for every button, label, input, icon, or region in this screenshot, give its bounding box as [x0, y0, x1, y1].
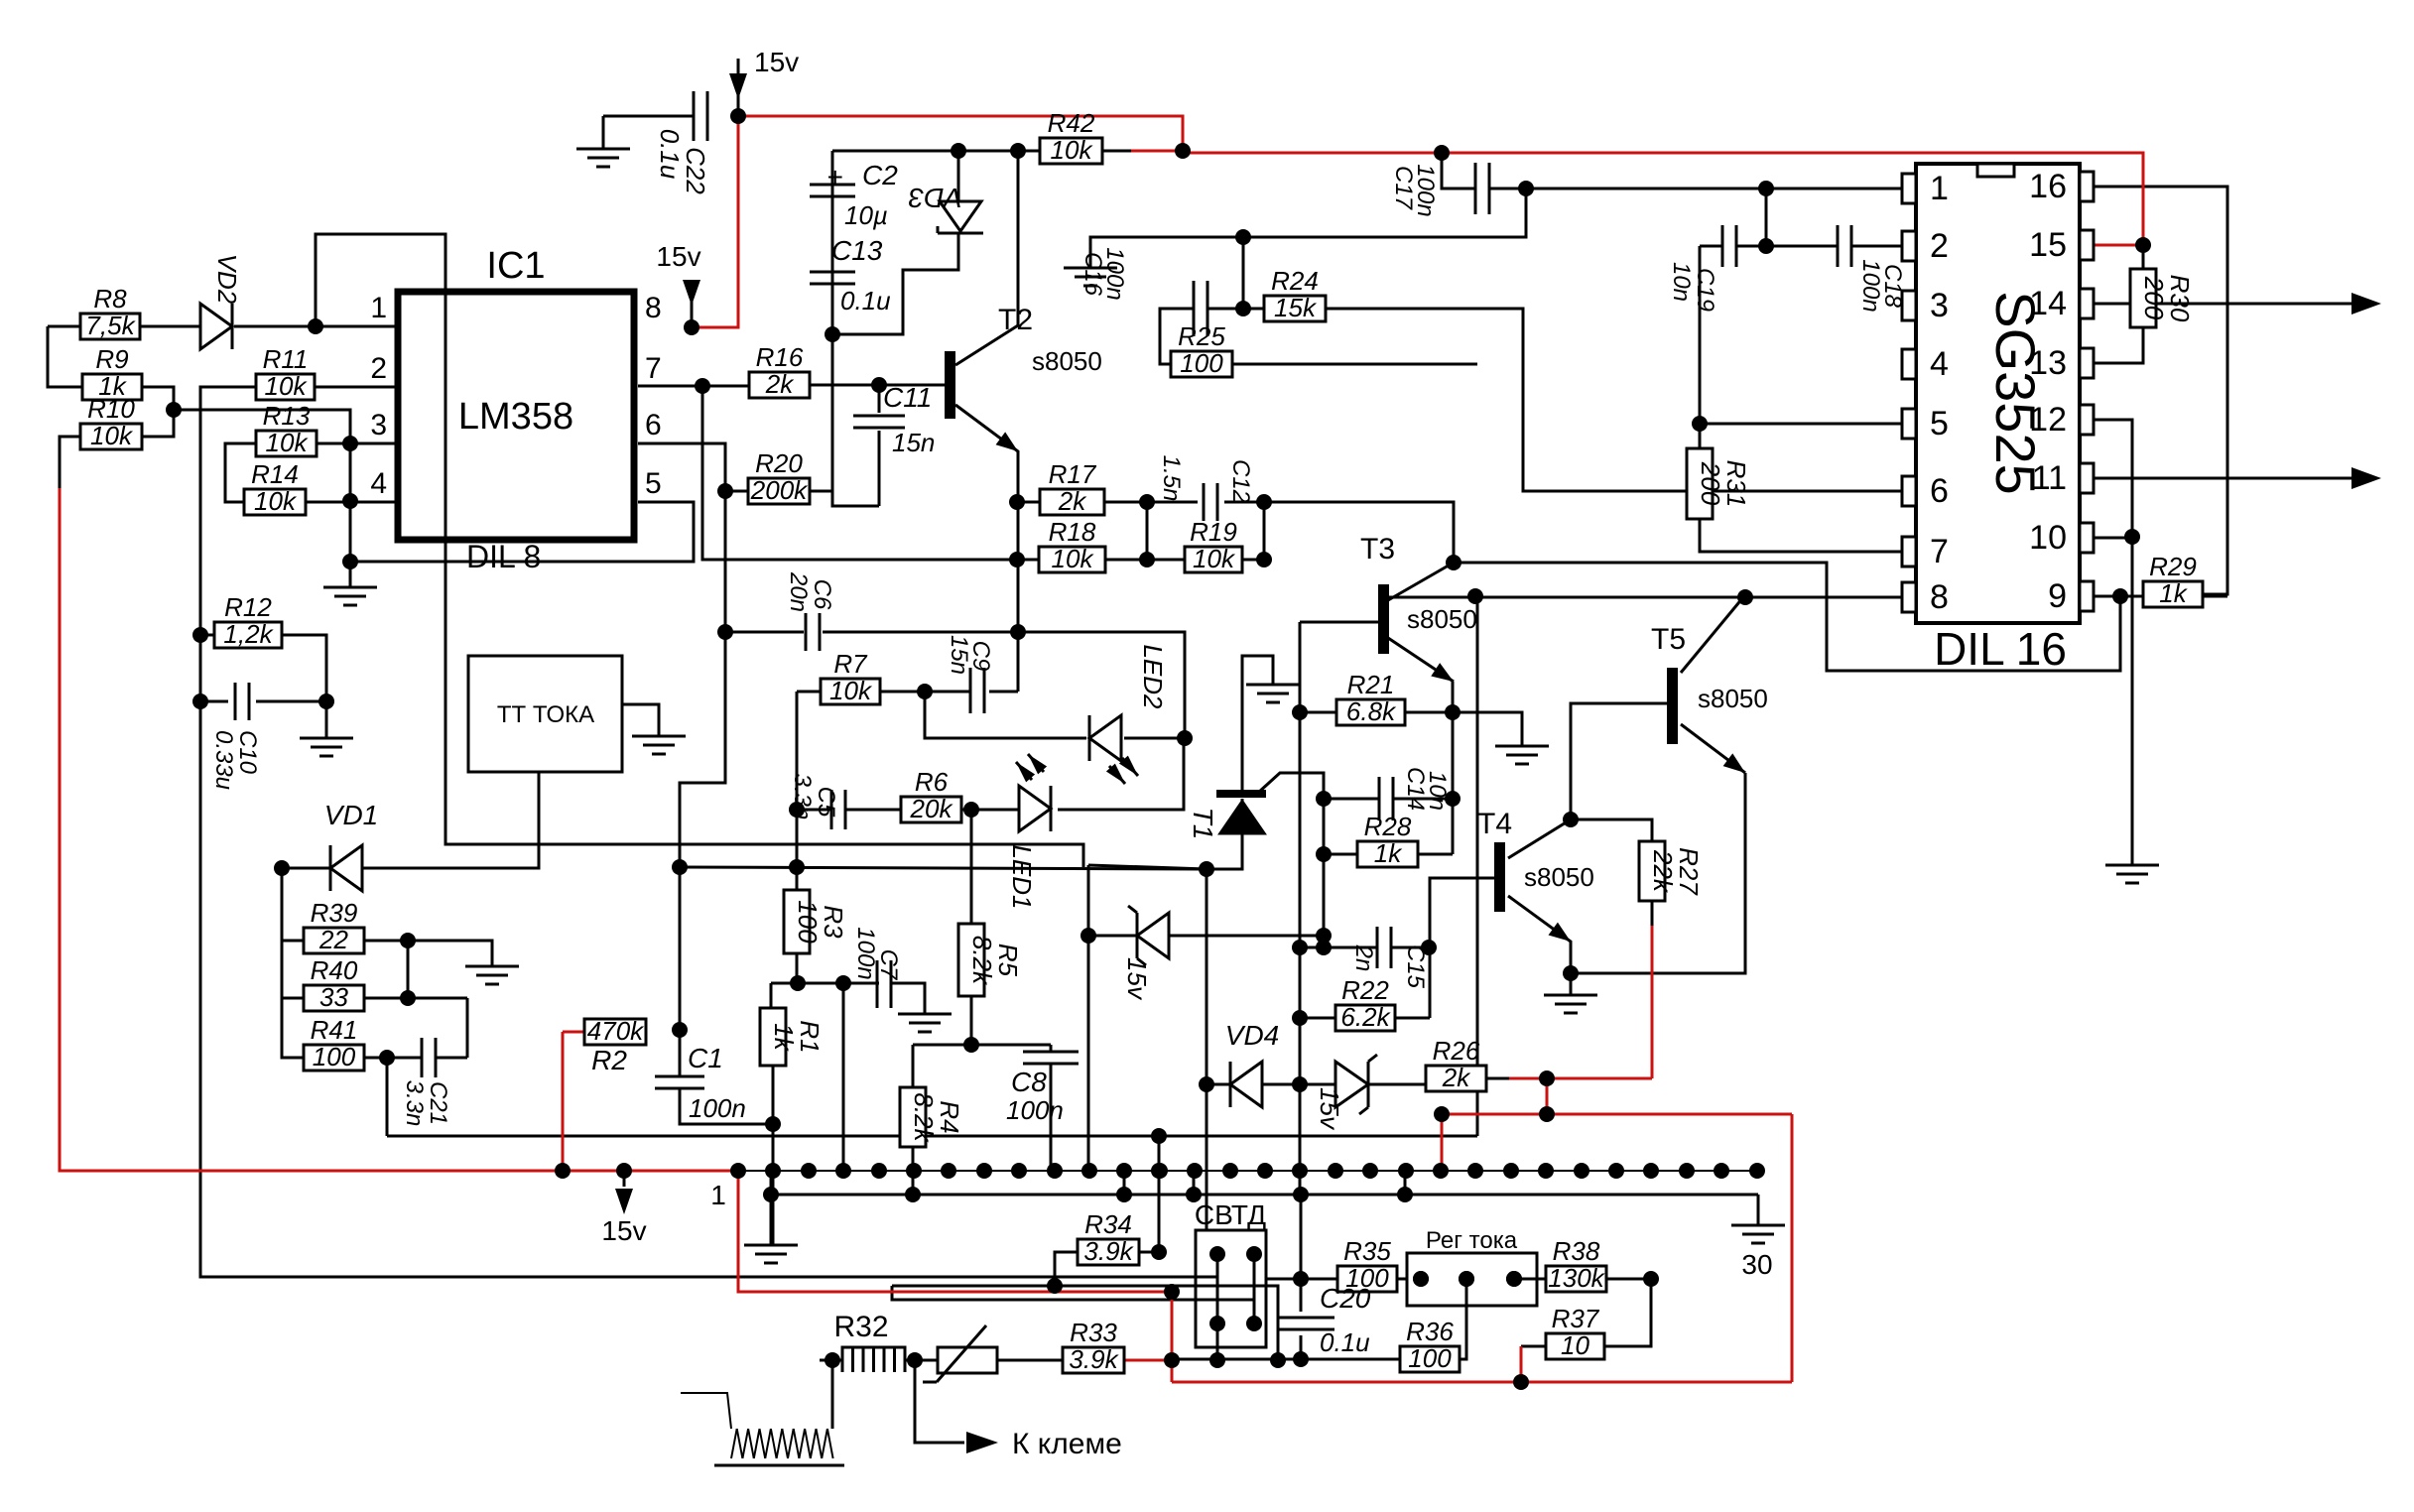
svg-text:100n: 100n — [852, 927, 879, 979]
svg-text:1k: 1k — [1374, 838, 1403, 868]
wire pin4 stub — [306, 501, 398, 504]
resistor R27 22k — [1639, 841, 1704, 901]
svg-text:2k: 2k — [1058, 486, 1087, 516]
svg-text:100n: 100n — [1412, 164, 1439, 216]
wire pin5 to ground row — [350, 502, 694, 587]
wire R29 right — [2203, 595, 2227, 598]
wire R25 to pin8 net — [1232, 363, 1477, 366]
resistor R33 3.9k — [1063, 1318, 1124, 1374]
wire row to bus x850 — [842, 983, 845, 1171]
svg-text:DIL 8: DIL 8 — [466, 539, 541, 574]
svg-text:0.33u: 0.33u — [210, 730, 237, 790]
svg-text:10k: 10k — [265, 371, 309, 401]
svg-text:100n: 100n — [1101, 247, 1128, 300]
svg-text:R13: R13 — [263, 401, 311, 431]
svg-text:LED2: LED2 — [1138, 644, 1168, 709]
IC1 pin number 1 — [370, 292, 387, 324]
capacitor C21 3.3n — [401, 1038, 451, 1126]
wire pin12-pin10 column — [2094, 420, 2132, 865]
svg-text:R2: R2 — [591, 1045, 627, 1075]
svg-text:10k: 10k — [90, 421, 134, 450]
wire R32 left link — [820, 1359, 842, 1362]
SG3525 pin number 16 — [2029, 168, 2067, 205]
svg-text:R32: R32 — [833, 1311, 888, 1343]
capacitor C2 10u polarized — [810, 160, 898, 230]
svg-text:0.1u: 0.1u — [840, 286, 891, 315]
wire pin10 stub — [2094, 537, 2132, 540]
wire C2/C13 column — [832, 151, 879, 506]
wire T1 anode column — [1206, 869, 1208, 1230]
SG3525 pin number 10 — [2029, 519, 2067, 557]
svg-text:ТТ ТОКА: ТТ ТОКА — [497, 701, 594, 728]
svg-text:R8: R8 — [93, 284, 127, 314]
resistor R17 2k — [1040, 459, 1104, 516]
wire R26 right stub — [1486, 1077, 1509, 1080]
resistor R42 10k — [1040, 108, 1102, 165]
wire LED2 right to junction — [1124, 737, 1185, 740]
wire TT TOKA gnd hook — [622, 704, 659, 736]
wire R22 row — [1300, 1017, 1430, 1020]
red R33 stub — [1124, 1359, 1172, 1362]
svg-text:10n: 10n — [1668, 262, 1695, 302]
red bottom rail — [1172, 1381, 1792, 1384]
resistor R41 100 — [304, 1015, 364, 1071]
wire C21 row — [387, 998, 467, 1058]
resistor R37 10 — [1546, 1304, 1604, 1360]
wire R11 left column to bottom feedback line — [200, 387, 1217, 1277]
svg-text:C10: C10 — [234, 730, 261, 775]
wire C6 row — [725, 631, 1018, 634]
wire R40 right — [364, 941, 467, 998]
wire T3 base column — [1299, 622, 1302, 1195]
wire T3 emitter column — [1452, 682, 1455, 854]
svg-text:1.5n: 1.5n — [1158, 455, 1185, 502]
wire T3 collector — [1388, 563, 1454, 600]
capacitor C6 20n — [785, 571, 835, 651]
diode VD2 — [200, 254, 242, 349]
svg-text:3: 3 — [370, 409, 387, 441]
red mid rail — [1442, 1113, 1792, 1116]
red R42 link — [1131, 150, 1183, 153]
red R26 row — [1509, 1077, 1652, 1080]
wire pin3-pin4-gnd column — [349, 443, 352, 562]
current transformer TT TOKA box — [468, 656, 622, 772]
svg-text:3: 3 — [1930, 287, 1949, 324]
wire R36 row — [1172, 1358, 1400, 1361]
IC1 pin number 4 — [370, 467, 387, 500]
svg-text:R6: R6 — [915, 767, 949, 797]
ground T3 emitter net — [1495, 746, 1549, 764]
svg-text:DIL 16: DIL 16 — [1934, 623, 2067, 675]
svg-text:VD1: VD1 — [324, 800, 378, 830]
svg-text:R11: R11 — [263, 344, 309, 374]
wire T2emitter-R17-R18-C6-C9 column — [989, 502, 1018, 692]
svg-text:СВТД: СВТД — [1195, 1199, 1266, 1230]
svg-text:8.2k: 8.2k — [967, 936, 997, 986]
ground bus R1 — [744, 1245, 798, 1263]
resistor R34 3.9k — [1078, 1209, 1139, 1266]
wire R4 bottom — [912, 1147, 915, 1195]
svg-text:R34: R34 — [1084, 1209, 1132, 1239]
wire R37 left — [1521, 1345, 1546, 1348]
ground C10 net — [300, 738, 353, 756]
svg-text:10k: 10k — [1193, 544, 1236, 573]
wire R19 right hook — [1242, 559, 1264, 562]
svg-text:10: 10 — [1561, 1330, 1589, 1360]
svg-text:Рег тока: Рег тока — [1426, 1227, 1518, 1254]
capacitor C14 10n — [1379, 767, 1451, 820]
wire pin2 stub — [315, 386, 398, 389]
wire pin7 net to R16/R18 — [638, 386, 1039, 560]
ground bus right 30 — [1731, 1225, 1785, 1243]
svg-text:R39: R39 — [311, 898, 358, 928]
IC1 pin number 6 — [645, 409, 662, 441]
SG3525 pin number 11 — [2032, 459, 2067, 497]
svg-text:3.9k: 3.9k — [1069, 1344, 1119, 1374]
svg-text:2n: 2n — [1350, 945, 1377, 972]
svg-text:T2: T2 — [998, 304, 1033, 336]
wire C12 verticals — [1147, 502, 1264, 560]
ground T4 emitter net — [1544, 995, 1597, 1013]
wire second bus line — [771, 1194, 1758, 1197]
SG3525 pin number 7 — [1930, 533, 1949, 570]
arrow output pin11 — [2351, 467, 2381, 489]
svg-text:R42: R42 — [1048, 108, 1095, 138]
bus junction dots row — [730, 1163, 1765, 1179]
wire R2 column top — [679, 867, 682, 1030]
resistor R10 10k — [80, 394, 142, 450]
svg-text:R3: R3 — [819, 905, 848, 939]
wire C10 row — [200, 701, 326, 738]
svg-text:R24: R24 — [1271, 266, 1319, 296]
wire R41 right — [364, 1057, 387, 1060]
wire T1 cathode to ground hook — [1242, 656, 1273, 791]
svg-text:R27: R27 — [1674, 847, 1704, 896]
capacitor C8 100n — [1006, 1052, 1079, 1125]
wire feedback row y1145 — [387, 1135, 1477, 1138]
wire C14 row — [1324, 798, 1453, 801]
resistor R8 7,5k — [80, 284, 140, 340]
svg-text:T1: T1 — [1188, 808, 1218, 840]
wire bus stubs — [771, 1171, 1405, 1245]
wire C6 to LED2 hook — [1018, 632, 1185, 738]
resistor R40 33 — [304, 955, 364, 1012]
svg-text:100: 100 — [1408, 1343, 1452, 1373]
SG3525 pin number 3 — [1930, 287, 1949, 324]
svg-text:s8050: s8050 — [1698, 684, 1768, 713]
SG3525 pin number 8 — [1930, 578, 1949, 616]
wire second line gnd drop — [1757, 1195, 1760, 1225]
wire pin9 stub — [2094, 595, 2143, 598]
wire zener15v-1 row — [1088, 935, 1324, 938]
svg-text:7: 7 — [1930, 533, 1949, 570]
resistor R5 8.2k — [958, 924, 1023, 996]
ground R39 net — [465, 966, 519, 984]
svg-text:R40: R40 — [311, 955, 358, 985]
resistor R26 2k — [1426, 1036, 1486, 1092]
svg-text:3.3n: 3.3n — [401, 1080, 428, 1127]
wire C8 stems — [1050, 1045, 1053, 1171]
svg-text:30: 30 — [1741, 1249, 1772, 1280]
supply arrow 15v pin8 — [656, 241, 700, 327]
svg-text:100: 100 — [793, 900, 823, 944]
svg-text:R9: R9 — [95, 344, 128, 374]
svg-text:1k: 1k — [769, 1023, 799, 1052]
IC1 part name LM358 — [458, 396, 573, 438]
svg-text:7: 7 — [645, 352, 662, 385]
red R27 bottom — [1651, 926, 1654, 1078]
svg-text:2k: 2k — [1442, 1063, 1471, 1092]
SG3525 pin number 6 — [1930, 472, 1949, 510]
wire R5 bottom junction row — [913, 996, 1051, 1045]
svg-text:R5: R5 — [993, 944, 1023, 977]
waveform sawtooth icon — [681, 1393, 844, 1465]
svg-text:4: 4 — [370, 467, 387, 500]
svg-text:15v: 15v — [754, 47, 799, 77]
wire R27 bottom stub — [1651, 901, 1654, 926]
wire R5 top — [963, 802, 979, 924]
resistor R36 100 — [1400, 1317, 1460, 1373]
wire pin15 stub red — [2094, 244, 2143, 247]
resistor R21 6.8k — [1336, 670, 1405, 726]
svg-text:К клеме: К клеме — [1012, 1428, 1122, 1460]
capacitor C13 0.1u — [810, 235, 891, 315]
wire C5 row — [797, 809, 901, 812]
svg-text:R28: R28 — [1364, 812, 1412, 841]
svg-text:22: 22 — [318, 925, 348, 954]
wire R30 stems — [2094, 245, 2143, 363]
svg-text:10k: 10k — [266, 428, 310, 457]
svg-text:T5: T5 — [1651, 623, 1686, 656]
svg-text:7,5k: 7,5k — [85, 311, 136, 340]
wire C12 to T3 collector — [1264, 502, 1454, 563]
svg-text:15v: 15v — [601, 1215, 646, 1246]
red supply wire top to SG3525 pin15 — [738, 116, 2143, 245]
wire T4 collector to R27 hook — [1571, 819, 1652, 841]
svg-text:T4: T4 — [1477, 808, 1512, 840]
svg-text:C7: C7 — [875, 949, 902, 981]
resistor R24 15k — [1264, 266, 1326, 322]
svg-text:LM358: LM358 — [458, 396, 573, 438]
svg-text:22k: 22k — [1648, 849, 1678, 894]
svg-text:12: 12 — [2029, 401, 2067, 439]
svg-text:1: 1 — [370, 292, 387, 324]
SG3525 pin number 5 — [1930, 405, 1949, 442]
svg-text:VD2: VD2 — [212, 254, 242, 305]
SG3525 pin number 4 — [1930, 345, 1949, 383]
SG3525 package DIL 16 — [1934, 623, 2067, 675]
svg-text:C19: C19 — [1692, 268, 1718, 312]
capacitor C20 0.1u — [1277, 1283, 1371, 1357]
capacitor C12 1.5n — [1158, 455, 1254, 521]
wire LED1 to LED2 column — [1058, 738, 1184, 810]
wire C14-R28 column — [1323, 799, 1326, 947]
svg-text:4: 4 — [1930, 345, 1949, 383]
IC1 pin number 7 — [645, 352, 662, 385]
capacitor C9 15n — [946, 635, 994, 713]
wire T3 emitter diag — [1388, 638, 1454, 682]
svg-text:10k: 10k — [1052, 544, 1095, 573]
svg-text:s8050: s8050 — [1032, 346, 1102, 376]
supply arrow 15v top — [729, 47, 799, 116]
resistor R39 22 — [304, 898, 364, 954]
wire R18-R19 link — [1105, 559, 1185, 562]
resistor R6 20k — [901, 767, 961, 823]
svg-text:R14: R14 — [251, 459, 299, 489]
svg-text:33: 33 — [319, 982, 348, 1012]
svg-text:C2: C2 — [862, 160, 898, 190]
transistor T2 s8050 — [945, 304, 1102, 451]
svg-text:R35: R35 — [1343, 1236, 1391, 1266]
IC1 pin number 2 — [370, 352, 387, 385]
wire pin8 long row — [1379, 596, 1903, 599]
svg-text:C6: C6 — [809, 579, 835, 610]
capacitor C19 10n — [1668, 225, 1736, 312]
wire bus line — [738, 1170, 1756, 1172]
svg-text:15k: 15k — [1274, 293, 1318, 322]
wire C17 left hook — [1442, 153, 1476, 189]
svg-text:2: 2 — [1930, 227, 1949, 265]
wire C1 stems — [680, 1030, 773, 1124]
SG3525 pin number 14 — [2029, 285, 2067, 322]
svg-text:8: 8 — [645, 292, 662, 324]
capacitor C11 15n — [853, 382, 935, 457]
svg-text:10k: 10k — [1051, 135, 1094, 165]
svg-text:10: 10 — [2029, 519, 2067, 557]
svg-text:200: 200 — [2139, 276, 2169, 320]
SG3525 pin number 1 — [1930, 170, 1949, 207]
svg-text:14: 14 — [2029, 285, 2067, 322]
resistor R28 1k — [1357, 812, 1418, 868]
svg-text:R38: R38 — [1553, 1236, 1600, 1266]
wire R10 left down (to red feed) — [60, 437, 80, 488]
transistor T3 s8050 — [1360, 533, 1477, 682]
wire svtd mid row — [1055, 1286, 1278, 1360]
red bus to R33 loop — [738, 1171, 1172, 1382]
wire R35 row — [1266, 1278, 1407, 1281]
svg-text:13: 13 — [2029, 344, 2067, 382]
wire R28 right hook — [1418, 853, 1453, 856]
wire T5 collector — [1681, 597, 1743, 673]
svg-text:5: 5 — [645, 467, 662, 500]
svg-text:8: 8 — [1930, 578, 1949, 616]
wire K kleme drop — [915, 1360, 964, 1443]
svg-text:C20: C20 — [1320, 1283, 1371, 1314]
capacitor C22 0.1u — [655, 91, 710, 194]
red supply to IC1 pin8 — [692, 116, 738, 327]
resistor R14 10k — [244, 459, 306, 516]
svg-text:C11: C11 — [883, 382, 932, 413]
svg-text:0.1u: 0.1u — [655, 129, 685, 180]
wire C20 column — [1300, 1195, 1303, 1359]
svg-text:15n: 15n — [892, 428, 935, 457]
wire C16 row — [1160, 309, 1243, 364]
SG3525 pin number 9 — [2048, 577, 2067, 615]
wire R20 row — [725, 490, 832, 493]
IC1 label — [486, 245, 545, 287]
svg-text:6: 6 — [1930, 472, 1949, 510]
svg-text:IC1: IC1 — [486, 245, 545, 287]
wire R17 row — [1017, 501, 1264, 504]
svg-text:1,2k: 1,2k — [223, 619, 274, 649]
svg-text:C5: C5 — [813, 787, 839, 818]
wire left column x1097 — [1087, 865, 1090, 1171]
resistor R19 10k — [1185, 517, 1242, 573]
wire R34 left hook — [892, 1252, 1078, 1286]
wire R8 row to VD2 to IC1 pin 1 — [48, 325, 398, 328]
svg-text:C13: C13 — [831, 235, 883, 266]
wire pin3 sg stub — [1902, 306, 1905, 309]
svg-text:20k: 20k — [910, 794, 954, 823]
svg-text:10µ: 10µ — [844, 200, 888, 230]
ground TT TOKA — [632, 736, 686, 754]
wire top supply row to R42 — [832, 150, 1131, 153]
svg-text:R1: R1 — [795, 1020, 825, 1053]
wire svtd branch — [892, 1286, 1254, 1300]
svg-text:2k: 2k — [765, 369, 795, 399]
wire R39-41 left bus — [282, 868, 304, 1058]
wire R33 right black — [1124, 1359, 1151, 1362]
ground T1 cathode — [1246, 685, 1300, 702]
node label 30 — [1741, 1249, 1772, 1280]
svg-text:C21: C21 — [425, 1081, 451, 1125]
svg-text:R10: R10 — [87, 394, 135, 424]
arrow output pin14 — [2351, 293, 2381, 315]
wire VD3 step — [832, 151, 958, 334]
svg-text:R26: R26 — [1433, 1036, 1480, 1066]
wire R34 right column — [1136, 1136, 1159, 1252]
connector SVTD box — [1195, 1199, 1266, 1360]
LED LED1 — [1007, 754, 1051, 910]
SG3525 part name — [1984, 291, 2047, 495]
SG3525 pin number 12 — [2029, 401, 2067, 439]
wire pin5 row — [1700, 423, 1903, 426]
wire R28 left stub — [1324, 853, 1357, 856]
zener D5 15v — [1122, 906, 1169, 1001]
wire R36 right to pot — [1460, 1279, 1466, 1359]
wire waveform link — [831, 1360, 834, 1429]
wire T2 collector up — [955, 151, 1018, 365]
supply arrow 15v bus — [601, 1171, 646, 1246]
svg-text:8.2k: 8.2k — [909, 1092, 939, 1143]
svg-text:200k: 200k — [750, 475, 809, 505]
wire R24 row — [1243, 309, 1903, 491]
wire TT TOKA bottom — [538, 771, 541, 774]
wire T2 emitter to R17 bus — [955, 405, 1018, 502]
svg-text:R18: R18 — [1049, 517, 1096, 547]
svg-text:R33: R33 — [1070, 1318, 1117, 1347]
svg-text:C1: C1 — [688, 1043, 723, 1073]
wire T3 base stub — [1300, 621, 1379, 624]
wire row B to T1 — [680, 799, 1242, 869]
resistor R22 6.2k — [1335, 975, 1395, 1032]
wire pin1 row — [1489, 188, 1903, 190]
IC1 pin number 8 — [645, 292, 662, 324]
svg-text:R20: R20 — [755, 448, 803, 478]
svg-text:20n: 20n — [785, 571, 812, 612]
svg-text:130k: 130k — [1548, 1263, 1605, 1293]
resistor R1 1k — [760, 1008, 825, 1066]
IC1 pin number 3 — [370, 409, 387, 441]
svg-text:0.1u: 0.1u — [1320, 1327, 1370, 1357]
SG3525 pin number 2 — [1930, 227, 1949, 265]
svg-text:6: 6 — [645, 409, 662, 441]
inductive pickup R32 — [832, 1311, 915, 1372]
wire VD1 row — [282, 772, 539, 868]
wire R38 left — [1514, 1278, 1546, 1281]
svg-text:16: 16 — [2029, 168, 2067, 205]
svg-text:R12: R12 — [224, 592, 272, 622]
